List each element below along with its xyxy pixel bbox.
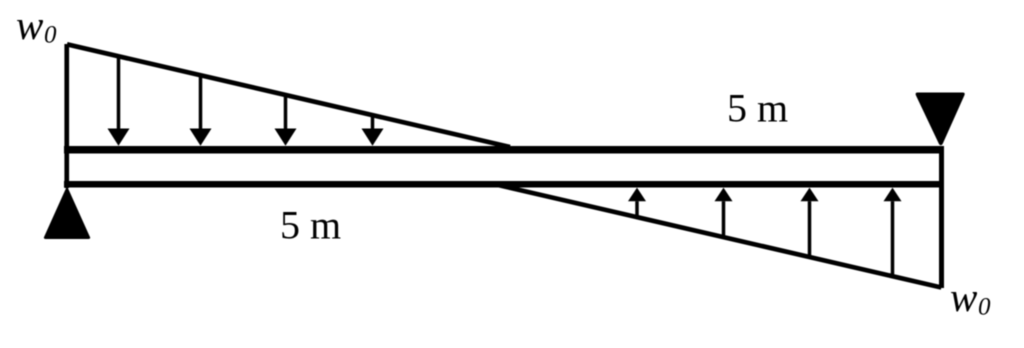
svg-text:0: 0 <box>978 294 991 321</box>
svg-text:5 m: 5 m <box>727 86 788 131</box>
svg-text:w: w <box>16 2 44 48</box>
svg-text:w: w <box>950 274 978 320</box>
svg-text:5 m: 5 m <box>280 203 341 248</box>
svg-text:0: 0 <box>44 22 57 49</box>
